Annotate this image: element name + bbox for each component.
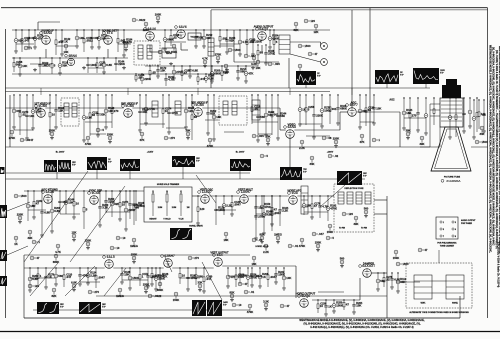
part cluster at 362,136 [359,134,364,144]
yoke label [345,188,365,190]
svg-text:AUDIO OUTPUT: AUDIO OUTPUT [461,219,476,222]
svg-text:6BY7: 6BY7 [350,103,358,107]
svg-text:R200: R200 [214,69,221,72]
signal wire [202,107,280,109]
vertical trunk [459,296,461,318]
component ladder at 398 [396,272,407,293]
scope lead [320,185,345,207]
component ladder at 106 [104,190,115,213]
svg-text:.0022: .0022 [274,211,281,215]
part cluster at 56,256 [53,254,60,264]
component ladder at 30 [28,267,39,292]
IF coil L2 [72,103,77,117]
svg-text:C270: C270 [22,111,29,114]
wire [374,213,387,215]
waveform scope trace at 79,302 [79,302,106,314]
alternate yoke box [406,263,472,308]
part cluster at 258,62 [255,60,260,70]
wire [290,41,321,43]
svg-text:270K: 270K [215,52,222,56]
component ladder at 252 [250,267,262,287]
component ladder at 156 [154,267,165,291]
component ladder at 120 [118,190,129,221]
wire [248,195,288,197]
component ladder at 174 [172,65,183,80]
part cluster at 88,138 [85,136,92,146]
svg-text:1MEG: 1MEG [130,244,138,248]
part cluster at 176,294 [173,292,180,302]
svg-text:560: 560 [364,206,369,210]
component ladder at 62 [60,29,71,56]
svg-text:1500: 1500 [402,262,409,266]
scope lead [164,255,172,272]
hookup wire [85,121,112,123]
component ladder at 126 [124,190,135,231]
component ladder at 22 [21,29,31,52]
svg-text:C140: C140 [206,275,213,278]
svg-text:47: 47 [286,304,290,308]
heater rail [6,87,431,89]
component ladder at 247 [246,29,256,55]
component ladder at 192 [191,94,197,140]
speaker jack A [321,43,328,50]
svg-text:270: 270 [412,114,417,118]
svg-text:150K: 150K [143,282,150,286]
svg-text:6AV6: 6AV6 [179,25,187,29]
scope lead [196,175,216,203]
svg-text:R262: R262 [32,275,39,278]
part cluster at 226,66 [223,64,230,74]
part cluster at 342,262 [340,256,345,267]
component ladder at 227 [225,29,236,54]
hookup wire [318,291,344,293]
tube V14 12AU7 [198,187,214,203]
tube V20 6AX4GT [359,261,375,277]
heater drop [289,88,291,95]
part cluster at 398,264 [396,262,409,266]
svg-text:1500: 1500 [20,194,27,198]
trimmer pot 1 [152,190,154,216]
svg-text:C110: C110 [66,273,72,276]
svg-text:6CS6: 6CS6 [92,191,100,195]
svg-text:6AN8: 6AN8 [287,125,296,129]
tube V12 6AU8 [41,187,57,203]
part cluster at 16,238 [14,236,18,246]
part cluster at 218,58 [215,52,222,63]
component ladder at 16 [14,29,23,53]
CRT base line [431,170,471,172]
horiz osc coil [301,186,308,214]
component ladder at 248 [246,267,257,287]
svg-text:+135V: +135V [147,152,154,154]
hookup wire [80,281,100,283]
wire [280,129,286,131]
part cluster at 314,234 [312,232,324,236]
svg-text:270: 270 [194,256,199,260]
component ladder at 426 [424,97,428,135]
component ladder at 106 [104,94,115,129]
svg-text:001: 001 [332,107,337,111]
svg-text:470K: 470K [207,144,214,148]
component ladder at 264 [262,195,273,235]
component ladder at 28 [26,190,35,221]
svg-text:12AU7: 12AU7 [202,190,212,194]
part cluster at 188,134 [185,128,190,139]
hookup wire [252,121,278,123]
part cluster at 300,66 [297,64,302,74]
component ladder at 46 [44,267,55,289]
component ladder at 366 [365,94,375,126]
svg-text:6DQ6: 6DQ6 [301,294,310,298]
scope lead [386,84,388,88]
component ladder at 404 [402,97,413,130]
svg-text:82K: 82K [51,294,56,298]
svg-text:3: 3 [455,222,456,224]
tube V8 6CB6 [121,101,138,117]
wire [149,45,151,52]
svg-text:1K: 1K [328,305,332,309]
svg-text:8: 8 [455,236,456,238]
component ladder at 77 [75,29,84,48]
part cluster at 160,52 [158,50,170,54]
component ladder at 270 [268,29,279,49]
sound coupler shield [134,41,160,65]
heater rail 2 [6,91,331,93]
part cluster at 30,286 [28,284,39,288]
wire [113,267,163,269]
svg-text:B+ 260V: B+ 260V [236,152,245,154]
svg-text:V HOLD: V HOLD [163,219,171,221]
svg-text:39K: 39K [419,142,424,146]
svg-text:(Ch. V-2318, V-2324 & Radio Ch: (Ch. V-2318, V-2324 & Radio Ch. V-2137-4… [497,242,500,288]
IF transformer shield [61,98,79,126]
tube V2 6T8 [102,28,118,44]
audio output socket [436,217,458,239]
component ladder at 314 [312,94,323,139]
tube V11 6BY7 [346,100,358,116]
part cluster at 408,134 [405,128,410,139]
svg-text:HORIZ. DRIVE: HORIZ. DRIVE [189,226,203,228]
component ladder at 326 [324,299,332,316]
part cluster at 356,218 [353,216,358,226]
component ladder at 198 [197,73,206,85]
part cluster at 134,258 [131,252,138,263]
svg-text:R256: R256 [208,74,215,77]
4.5MC trap coil [252,100,260,120]
signal wire [132,107,193,109]
wire [233,30,235,62]
bus rail [6,178,366,180]
vert box label [157,184,180,186]
component ladder at 98 [96,94,105,137]
svg-text:(Ch. V-2318, V-2324 & Radio Ch: (Ch. V-2318, V-2324 & Radio Ch. V-2137-4… [495,50,498,249]
svg-text:150K: 150K [131,252,138,256]
wire [340,111,348,113]
component ladder at 284 [282,267,291,290]
svg-text:PICTURE TUBE: PICTURE TUBE [444,177,461,179]
voltage label [327,152,334,154]
svg-text:1500: 1500 [481,140,488,144]
model list paragraph [299,319,424,329]
svg-text:10: 10 [116,246,120,250]
svg-text:1: 1 [443,222,444,224]
component ladder at 196 [194,267,203,285]
part cluster at 20,218 [17,212,24,223]
scope lead [65,266,95,296]
part cluster at 290,246 [288,244,299,248]
component ladder at 169 [167,94,178,134]
hookup wire [360,121,374,123]
ratio det transformer [208,38,214,56]
part cluster at 254,258 [251,256,256,266]
component ladder at 140 [138,94,149,132]
svg-text:21AOM4A: 21AOM4A [446,179,461,183]
part cluster at 420,250 [418,248,428,252]
svg-text:.02: .02 [334,154,338,158]
svg-text:10: 10 [238,303,242,307]
part cluster at 134,240 [130,238,138,248]
part cluster at 112,248 [110,246,120,250]
svg-text:47K: 47K [359,140,364,144]
part cluster at 270,64 [268,62,280,66]
scope lead [56,172,58,179]
wire [181,49,188,51]
svg-text:R226: R226 [229,37,236,40]
component ladder at 27 [25,94,34,140]
component ladder at 34 [32,190,43,219]
wire sound subrow [145,65,258,67]
waveform scope trace at 296,71 [296,71,321,85]
component ladder at 158 [156,65,167,78]
hookup wire [60,213,80,215]
part cluster at 98,130 [96,128,104,132]
component ladder at 97 [96,57,106,73]
part cluster at 330,156 [328,154,339,158]
CRT anode cap [442,79,461,98]
part cluster at 190,258 [188,256,199,260]
svg-text:1MEG: 1MEG [274,232,282,236]
scope lead [24,171,88,262]
yoke winding 1 [338,192,344,204]
wire [98,190,144,192]
wire [180,43,182,50]
svg-text:R260: R260 [108,198,115,201]
AGC wire [399,112,401,147]
component ladder at 236 [235,267,245,287]
ground at 35,68 [33,68,37,72]
component ladder at 418 [416,97,420,132]
part cluster at 396,252 [393,250,400,260]
component ladder at 152 [150,267,160,286]
svg-text:1MEG: 1MEG [116,294,124,298]
component ladder at 171 [170,29,180,46]
alt yoke coil A [414,275,432,299]
part cluster at 232,296 [229,290,234,301]
part cluster at 34,242 [32,240,40,244]
svg-text:560: 560 [260,115,265,119]
heater drop [127,88,129,95]
part cluster at 160,284 [157,282,164,292]
component ladder at 142 [140,73,151,84]
component ladder at 334 [332,299,343,313]
svg-text:R250: R250 [336,301,343,304]
svg-text:.005: .005 [274,62,280,66]
svg-text:10: 10 [76,202,80,206]
svg-text:270: 270 [114,109,119,113]
component ladder at 228 [226,267,235,288]
part cluster at 16,196 [14,194,27,198]
hookup wire [205,119,218,121]
hookup wire [56,45,76,47]
wire [330,195,334,197]
part cluster at 166,138 [164,136,175,140]
CRT label [441,177,461,184]
waveform scope trace at 170,228 [170,228,192,240]
waveform scope trace at 375,70 [375,70,404,84]
part cluster at 26,48 [24,46,32,50]
component ladder at 206 [204,73,215,83]
component ladder at 272 [271,195,281,231]
svg-text:6.8K: 6.8K [44,211,50,215]
CRT grid lead 1 [430,103,440,105]
tube V5 6AQ5 [254,24,274,40]
component ladder at 260 [258,267,269,288]
wire [172,267,213,269]
component ladder at 165 [163,29,174,51]
svg-text:120: 120 [200,207,205,211]
wire [371,272,387,274]
border top second [211,9,488,11]
part cluster at 246,292 [244,290,255,294]
scope lead [182,167,184,179]
component ladder at 118 [117,29,126,52]
part cluster at 230,50 [228,48,241,52]
svg-text:1500: 1500 [304,44,311,48]
component ladder at 136 [135,73,145,82]
svg-text:4.7K: 4.7K [55,250,61,254]
svg-text:18K: 18K [216,115,221,119]
component ladder at 258 [257,44,263,61]
svg-text:39K: 39K [27,236,32,240]
IF coil L3 [223,101,228,115]
part cluster at 52,134 [49,128,56,139]
svg-text:12K: 12K [71,230,76,234]
component ladder at 148 [146,267,158,288]
component ladder at 384 [383,272,393,287]
signal wire sound row [12,29,330,31]
part cluster at 74,236 [71,230,76,241]
svg-text:47: 47 [424,248,428,252]
component ladder at 272 [271,94,279,135]
svg-text:140V: 140V [223,301,228,304]
svg-text:150K: 150K [132,276,139,280]
component ladder at 136 [134,190,145,221]
component ladder at 214 [212,94,221,141]
svg-text:150K: 150K [173,298,180,302]
trimmer pot 2 [166,190,168,216]
component ladder at 256 [254,195,265,240]
yoke winding 4 [365,192,371,204]
bus rail [33,309,250,311]
border bottom separator [0,331,500,333]
part cluster at 262,238 [259,232,264,243]
component ladder at 186 [184,94,195,129]
ratio det label [166,52,172,55]
svg-text:270: 270 [94,290,99,294]
svg-text:82K: 82K [293,28,298,32]
component ladder at 84 [83,190,88,229]
wire bottom of top section [12,73,215,75]
hookup wire [306,135,330,137]
tube V19 6DQ6 [296,291,316,307]
socket caption 2 [437,242,457,248]
component ladder at 38 [37,267,42,285]
component ladder at 312 [310,195,321,219]
component ladder at 274 [273,29,278,55]
svg-text:33K: 33K [197,280,202,284]
component ladder at 252 [251,94,261,124]
svg-text:HEIGHT: HEIGHT [149,219,157,221]
vertical trunk [23,255,25,318]
signal wire [279,108,281,130]
svg-text:270: 270 [170,136,175,140]
svg-text:150K: 150K [315,240,322,244]
component ladder at 220 [219,29,228,48]
hookup wire [216,209,236,211]
svg-text:2.2K: 2.2K [263,250,269,254]
vertical trunk [369,8,371,147]
svg-text:10K: 10K [79,36,84,40]
part cluster at 254,58 [251,56,257,66]
tube V1 6AN8 [40,28,54,44]
component ladder at 300 [298,94,306,126]
svg-text:10: 10 [122,236,126,240]
svg-text:12BH7: 12BH7 [241,190,251,194]
component ladder at 124 [122,29,133,57]
waveform scope trace at 230,159 [230,159,251,171]
svg-text:B+ 260V: B+ 260V [56,152,65,154]
bus rail [6,172,251,174]
component ladder at 35 [33,29,44,49]
svg-text:ALTERNATE YOKE CONNECTIONS: ALTERNATE YOKE CONNECTIONS USED IN SOME … [409,311,469,314]
socket pins [440,221,456,238]
waveform scope trace at 120,159 [120,159,140,171]
svg-text:150K: 150K [393,256,400,260]
component ladder at 410 [409,97,417,134]
hookup wire [165,41,186,43]
component ladder at 56 [54,94,65,129]
svg-text:470K: 470K [171,111,178,115]
svg-text:10K: 10K [22,64,27,68]
svg-text:5: 5 [443,229,444,231]
socket caption [461,219,476,225]
ground at 124,66 [122,66,126,70]
svg-text:.01: .01 [250,290,254,294]
svg-text:2.5M: 2.5M [172,207,177,209]
svg-text:TO PIN: TO PIN [339,228,346,230]
svg-text:R144: R144 [118,60,125,63]
wire [320,42,322,46]
component ladder at 112 [111,94,119,128]
component ladder at 74 [72,190,79,219]
B+ rail right stub [471,146,488,148]
svg-text:33K: 33K [479,132,484,136]
hookup wire [14,129,33,131]
svg-text:R142: R142 [64,38,71,41]
svg-text:10K: 10K [265,134,270,138]
component ladder at 190 [188,65,198,78]
svg-text:R244: R244 [280,112,287,115]
